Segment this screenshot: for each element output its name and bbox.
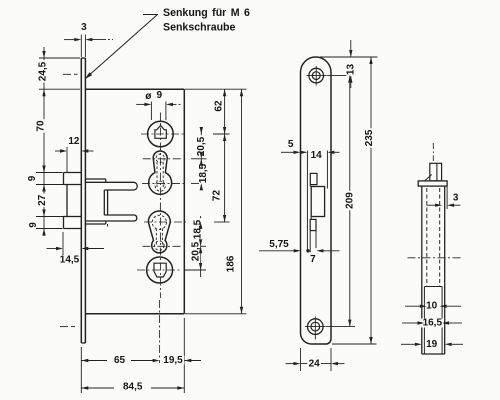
svg-text:186: 186 xyxy=(225,255,236,272)
svg-text:84,5: 84,5 xyxy=(123,382,143,393)
svg-text:5: 5 xyxy=(288,139,294,150)
svg-text:ø: ø xyxy=(145,91,152,102)
svg-text:18,5: 18,5 xyxy=(192,219,203,239)
svg-text:Senkung für M 6: Senkung für M 6 xyxy=(163,7,250,19)
svg-text:27: 27 xyxy=(37,194,48,206)
svg-text:13: 13 xyxy=(345,64,356,76)
svg-text:Senkschraube: Senkschraube xyxy=(163,22,236,34)
svg-text:19,5: 19,5 xyxy=(163,355,183,366)
svg-text:7: 7 xyxy=(310,254,316,265)
svg-text:18,5: 18,5 xyxy=(198,163,209,183)
svg-text:9: 9 xyxy=(27,175,38,181)
svg-text:235: 235 xyxy=(364,129,375,146)
svg-text:9: 9 xyxy=(157,90,163,101)
svg-text:19: 19 xyxy=(426,339,438,350)
svg-text:62: 62 xyxy=(214,100,225,112)
svg-text:9: 9 xyxy=(28,222,39,228)
svg-text:14: 14 xyxy=(311,150,323,161)
svg-text:16,5: 16,5 xyxy=(423,318,443,329)
svg-text:209: 209 xyxy=(345,192,356,209)
svg-text:3: 3 xyxy=(453,192,459,203)
svg-text:24: 24 xyxy=(309,358,321,369)
svg-text:70: 70 xyxy=(35,120,46,132)
svg-text:12: 12 xyxy=(68,136,80,147)
svg-text:5,75: 5,75 xyxy=(269,239,289,250)
svg-text:10: 10 xyxy=(426,301,438,312)
svg-text:72: 72 xyxy=(212,190,223,202)
svg-text:65: 65 xyxy=(114,355,126,366)
svg-text:24,5: 24,5 xyxy=(37,61,48,81)
svg-text:3: 3 xyxy=(81,22,87,33)
svg-text:14,5: 14,5 xyxy=(60,254,80,265)
